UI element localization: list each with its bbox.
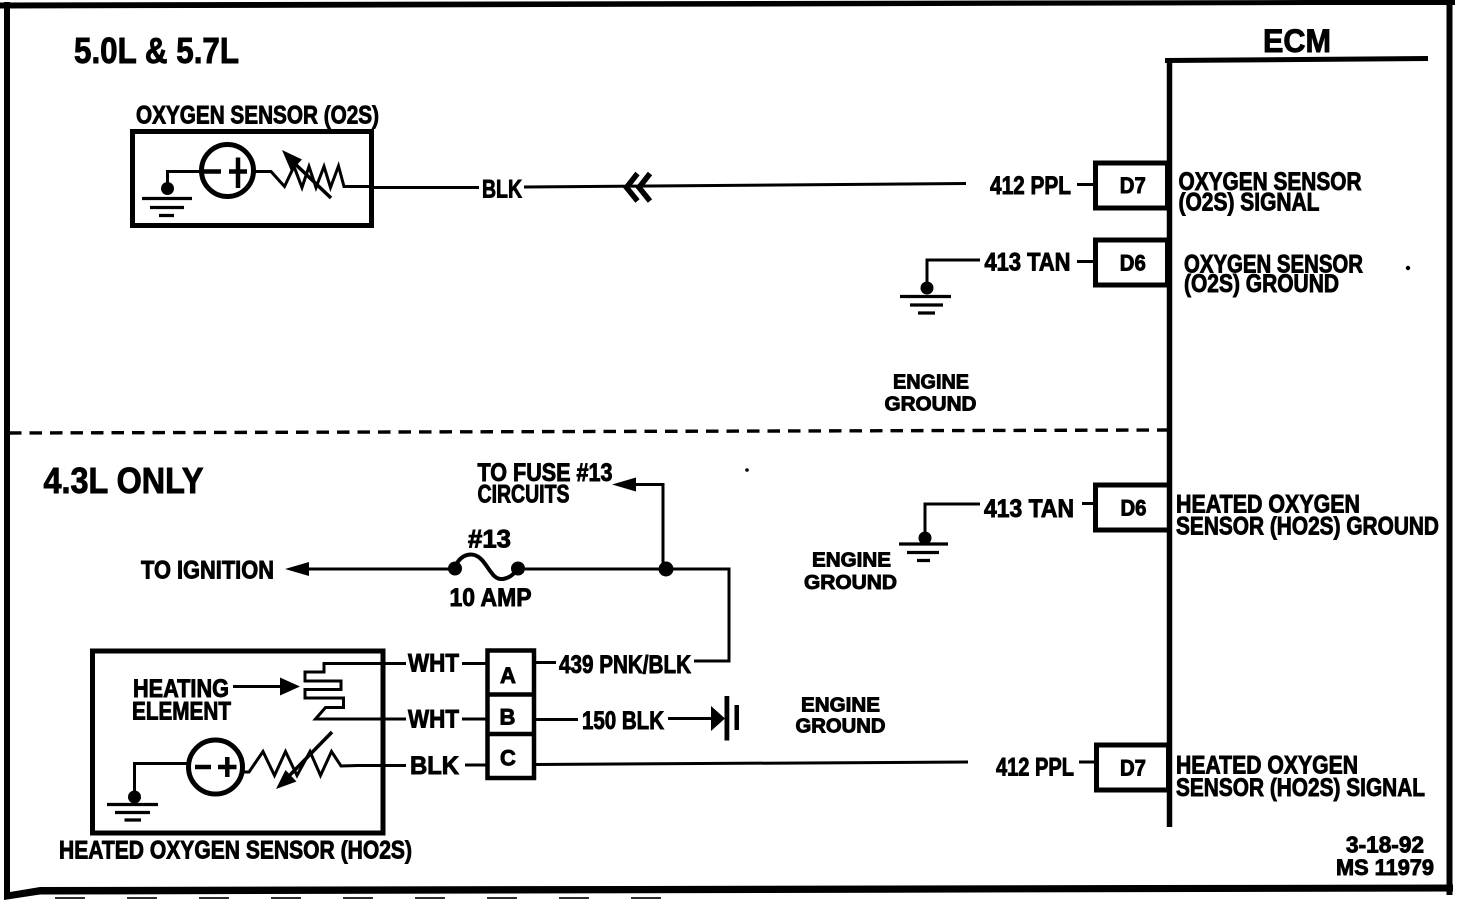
svg-text:GROUND: GROUND — [796, 716, 886, 738]
heating element pointer line — [233, 685, 284, 688]
svg-text:ELEMENT: ELEMENT — [132, 698, 231, 726]
ground engine ground lower — [899, 544, 948, 561]
plus sign — [218, 757, 237, 777]
wire BLK C inside box — [356, 764, 406, 767]
svg-text:OXYGEN SENSOR (O2S): OXYGEN SENSOR (O2S) — [136, 102, 379, 130]
wire B to 150 label — [535, 718, 578, 721]
wire to fuse circuits — [633, 485, 663, 570]
wire 413 TAN lower to ground — [925, 504, 980, 533]
wire BLK right segment — [524, 184, 966, 188]
svg-text:ENGINE: ENGINE — [812, 550, 891, 572]
junction dot — [128, 791, 141, 804]
connector divider A/B — [487, 692, 534, 697]
svg-text:5.0L & 5.7L: 5.0L & 5.7L — [74, 30, 239, 71]
wire WHT A from element — [324, 662, 406, 665]
wire stub to D6 lower — [1082, 502, 1097, 505]
speck artifact 2 — [1406, 266, 1410, 270]
ECM pin D6 box lower — [1096, 485, 1170, 530]
svg-text:(O2S) SIGNAL: (O2S) SIGNAL — [1179, 189, 1320, 217]
page border frame right — [1447, 0, 1453, 895]
wire to fuse circuits arrowhead — [612, 478, 636, 492]
svg-text:ENGINE: ENGINE — [801, 695, 880, 717]
variable resistor R1 zigzag — [255, 166, 369, 188]
svg-text:HEATED OXYGEN SENSOR (HO2S): HEATED OXYGEN SENSOR (HO2S) — [59, 837, 412, 865]
variable resistor arrowhead lower — [276, 770, 297, 789]
svg-text:D7: D7 — [1120, 173, 1146, 198]
page border frame left — [4, 2, 10, 898]
junction dot fuse node — [659, 562, 674, 577]
svg-text:412 PPL: 412 PPL — [990, 172, 1071, 200]
wire C to 412 PPL — [535, 762, 968, 765]
svg-text:A: A — [500, 663, 516, 688]
scan artifact hash strip top right — [1322, 0, 1430, 3]
svg-text:412 PPL: 412 PPL — [996, 754, 1074, 782]
junction dot — [921, 282, 934, 295]
junction dot — [919, 532, 932, 545]
svg-text:C: C — [500, 746, 516, 771]
sensor source U2 circle — [189, 740, 243, 794]
svg-text:BLK: BLK — [410, 752, 459, 780]
ECM pin D7 box — [1096, 163, 1168, 208]
fuse F13 right dot — [511, 562, 525, 576]
svg-text:4.3L ONLY: 4.3L ONLY — [44, 460, 204, 501]
variable resistor R2 zigzag — [242, 752, 358, 776]
wire WHT A to connector — [462, 662, 489, 665]
svg-text:SENSOR (HO2S) SIGNAL: SENSOR (HO2S) SIGNAL — [1176, 774, 1425, 802]
heating element meander — [305, 662, 344, 719]
ground HO2S — [107, 805, 158, 821]
ground engine ground top — [900, 297, 951, 314]
svg-text:CIRCUITS: CIRCUITS — [478, 481, 570, 509]
wire stub to D7 lower — [1079, 761, 1098, 764]
svg-text:GROUND: GROUND — [804, 572, 897, 594]
wire BLK C to connector — [465, 764, 489, 767]
scan artifact dashes below bottom border — [55, 897, 700, 899]
wire ignition to fuse — [306, 568, 450, 571]
chassis ground tall bar — [725, 696, 730, 741]
svg-text:439 PNK/BLK: 439 PNK/BLK — [559, 651, 691, 679]
wire 439 to fuse riser — [694, 660, 700, 663]
svg-text:D6: D6 — [1120, 251, 1146, 276]
svg-text:10 AMP: 10 AMP — [450, 584, 532, 612]
sensor source U1 circle — [202, 145, 254, 197]
wire WHT B from element — [328, 718, 406, 721]
svg-text:#13: #13 — [468, 526, 511, 554]
minus sign — [195, 765, 211, 770]
connector divider B/C — [487, 732, 534, 737]
svg-text:MS 11979: MS 11979 — [1336, 855, 1434, 880]
fuse F13 left dot — [448, 562, 462, 576]
svg-text:ECM: ECM — [1263, 23, 1331, 59]
wire 413 TAN to ground — [927, 260, 980, 284]
plus sign — [229, 158, 247, 189]
wire 150 BLK to chassis ground — [668, 717, 713, 720]
wire from source to ground — [135, 764, 189, 795]
page border frame top — [0, 0, 1455, 9]
ECM box top edge — [1165, 59, 1428, 61]
ECM pin D7 box lower — [1097, 745, 1169, 790]
svg-text:413 TAN: 413 TAN — [984, 495, 1074, 523]
svg-text:413 TAN: 413 TAN — [985, 249, 1071, 277]
variable resistor arrowhead — [282, 150, 302, 171]
ECM pin D6 box — [1096, 240, 1168, 285]
wire BLK left segment — [369, 186, 479, 189]
chassis ground triangle — [711, 706, 725, 731]
svg-text:B: B — [500, 705, 516, 730]
svg-text:WHT: WHT — [408, 650, 459, 678]
svg-text:TO IGNITION: TO IGNITION — [141, 557, 274, 585]
svg-text:D6: D6 — [1121, 496, 1147, 521]
svg-text:150 BLK: 150 BLK — [582, 707, 664, 735]
wire stub to D7 — [1077, 183, 1097, 186]
ground O2S — [142, 199, 192, 216]
svg-text:(O2S) GROUND: (O2S) GROUND — [1184, 270, 1339, 298]
variable resistor arrow lower — [288, 732, 332, 777]
wire stub to D6 — [1077, 260, 1097, 263]
svg-text:BLK: BLK — [482, 176, 522, 204]
wire from source to ground — [168, 172, 202, 187]
heated oxygen sensor HO2S box — [93, 651, 384, 833]
wire A to 439 label — [535, 661, 556, 664]
chassis ground short bar — [735, 705, 740, 730]
junction dot — [161, 182, 174, 195]
svg-text:GROUND: GROUND — [885, 394, 977, 416]
svg-text:ENGINE: ENGINE — [893, 372, 969, 394]
wire WHT B to connector — [462, 718, 489, 721]
variable resistor arrow — [291, 160, 331, 198]
svg-text:3-18-92: 3-18-92 — [1346, 832, 1424, 858]
heating element pointer arrowhead — [280, 678, 300, 696]
ECM box left edge — [1167, 58, 1173, 827]
svg-text:D7: D7 — [1120, 756, 1146, 781]
page border frame bottom — [4, 885, 1453, 901]
speck artifact 1 — [745, 468, 749, 472]
wire junction to connector A — [672, 569, 729, 661]
svg-text:SENSOR (HO2S) GROUND: SENSOR (HO2S) GROUND — [1176, 513, 1439, 541]
minus sign — [203, 169, 221, 174]
oxygen sensor O2S box — [133, 132, 372, 226]
svg-text:WHT: WHT — [408, 706, 459, 734]
fuse F13 element — [455, 555, 518, 580]
inline connector chevrons — [627, 174, 651, 202]
wire fuse to junction — [525, 568, 660, 571]
dashed section divider — [9, 430, 1167, 433]
connector block outer — [488, 651, 535, 779]
to ignition arrowhead — [285, 562, 309, 576]
